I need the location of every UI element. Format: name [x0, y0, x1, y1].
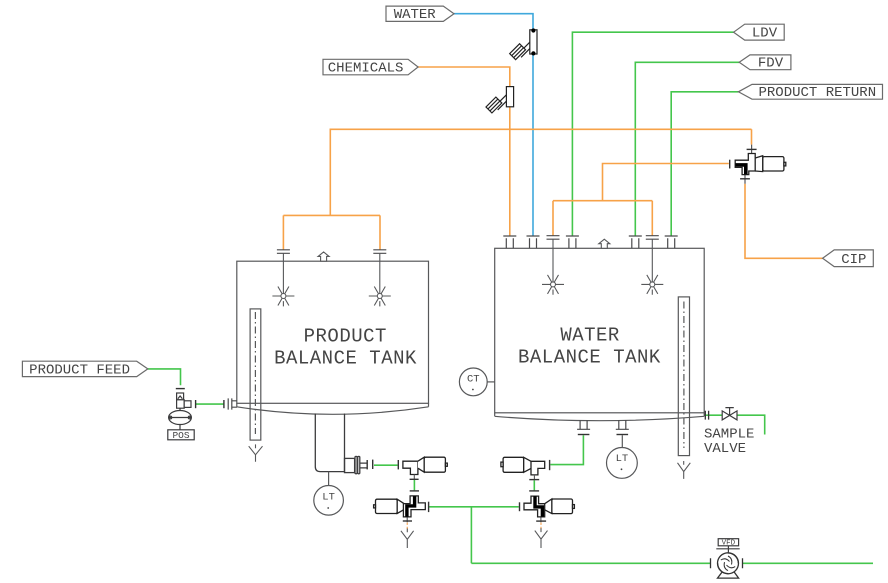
tick green pipe left: [372, 460, 374, 469]
svg-text:PRODUCT FEED: PRODUCT FEED: [29, 362, 130, 378]
standpipe product tank: [250, 309, 261, 440]
sprayball product tank left: [272, 287, 294, 307]
drain stub mixproof1 (orange): [406, 523, 408, 532]
tick V5 right: [549, 460, 551, 470]
wire CIP return drop (orange): [745, 184, 823, 258]
tick mixproof1 bottom: [403, 520, 412, 522]
valve V5 seat valve (actuator left): [501, 457, 545, 475]
nozzle spray feed right (water tank): [646, 236, 659, 240]
nozzle product feed inlet (product tank left): [228, 398, 237, 409]
nozzle bottom outlet1 (water tank): [577, 420, 590, 429]
valve chemicals inlet (Y-valve with actuator pad): [486, 87, 514, 113]
tick feed pipe right: [223, 400, 225, 408]
svg-text:FDV: FDV: [758, 56, 784, 72]
instrument LT water tank: [607, 435, 638, 478]
sprayball product tank right: [369, 287, 391, 307]
wire FDV line (green): [635, 62, 739, 236]
flag CIP: [823, 250, 874, 267]
tick mixproof1 top: [410, 490, 419, 492]
nozzle bottom outlet2 (water tank): [616, 420, 629, 429]
label water tank: [518, 325, 661, 369]
sprayball water tank right: [641, 275, 663, 295]
svg-text:LT: LT: [616, 453, 629, 465]
nozzle spray feed right (product tank): [373, 250, 386, 254]
tick feed pipe left: [195, 400, 197, 408]
svg-text:POS: POS: [172, 430, 189, 441]
sprayball water tank left: [542, 275, 564, 295]
tick V4 bottom: [410, 478, 419, 480]
valve CIP return (3-port, actuator right): [730, 145, 786, 184]
nozzle ferrule FDV inlet: [629, 236, 642, 248]
flag FDV: [739, 55, 791, 70]
svg-text:SAMPLE: SAMPLE: [704, 426, 754, 442]
wire sample line (green): [704, 415, 765, 434]
svg-text:PRODUCT RETURN: PRODUCT RETURN: [758, 85, 876, 101]
wire CIP header (orange): [283, 129, 751, 250]
wire product feed (green): [148, 369, 224, 404]
drain funnel mixproof2: [535, 528, 548, 548]
stub V4 to tick: [407, 475, 414, 523]
svg-text:PRODUCT: PRODUCT: [304, 326, 387, 348]
valve V4 seat valve (actuator right): [403, 457, 447, 474]
svg-text:LDV: LDV: [752, 26, 778, 42]
svg-text:CIP: CIP: [841, 252, 866, 268]
standpipe water tank: [678, 297, 689, 456]
valve V6 mixproof (actuator left): [374, 496, 426, 517]
tick mixproof1 right: [428, 502, 430, 512]
wire bottom main (green): [429, 507, 873, 564]
svg-text:WATER: WATER: [394, 7, 437, 23]
instrument POS box: [168, 430, 194, 441]
sprayball feed pipes: [283, 239, 652, 293]
flag PRODUCT RETURN: [738, 84, 882, 99]
wire chemicals supply (orange): [418, 67, 510, 236]
wire product return line (green): [671, 92, 738, 236]
drain funnel mixproof1: [401, 529, 414, 549]
nozzle spray feed left (product tank): [277, 250, 290, 254]
drain stub mixproof2 (orange): [540, 523, 542, 532]
nozzle sample port (water tank right): [705, 411, 708, 420]
flag LDV: [734, 24, 785, 40]
wire tank1 outlet (green): [374, 465, 414, 490]
svg-text:BALANCE TANK: BALANCE TANK: [518, 347, 661, 369]
nozzle ferrule water inlet: [527, 236, 540, 248]
tick mixproof2 bottom: [536, 520, 546, 522]
instrument LT product outlet: [314, 472, 344, 515]
tick mixproof2 top: [529, 490, 539, 492]
vent product tank: [318, 252, 329, 261]
wire tank2 outlet (green): [534, 435, 583, 490]
label product tank: [274, 326, 417, 370]
black plug mixproof1: [407, 496, 415, 516]
svg-text:LT: LT: [322, 491, 335, 503]
wire water supply (blue): [454, 14, 533, 236]
stub V5 to tick: [534, 475, 541, 522]
label sample valve: [704, 426, 754, 457]
tank water balance: [495, 248, 705, 420]
ticks water outlet nozzles: [578, 434, 590, 436]
tick V5 bottom: [529, 479, 539, 481]
tick outlet stub end: [366, 460, 368, 469]
nozzle ferrule product return inlet: [665, 236, 678, 248]
valve water inlet (Y-valve with actuator pad): [510, 28, 537, 59]
svg-text:VALVE: VALVE: [704, 441, 746, 457]
instrument CT water tank: [459, 368, 494, 396]
tick feed top: [176, 388, 185, 390]
flag CHEMICALS: [323, 59, 418, 75]
outlet pipe product tank: [315, 414, 367, 474]
nozzle spray feed left (water tank): [547, 236, 560, 240]
tank product balance: [237, 261, 429, 414]
flag WATER: [386, 6, 454, 21]
check valve feed: [177, 393, 184, 400]
pump PD lobe (product feed): [169, 408, 192, 430]
valve V7 mixproof (actuator right): [524, 496, 574, 517]
wire spray manifold (orange): [553, 164, 729, 236]
tick green pipe right: [397, 460, 399, 469]
svg-text:VFD: VFD: [722, 540, 736, 548]
drain funnel product standpipe: [249, 444, 263, 461]
tick mixproof2 left: [519, 502, 521, 511]
instrument VFD box: [716, 539, 739, 553]
flag PRODUCT FEED: [22, 361, 147, 376]
valve block feed: [177, 400, 191, 408]
pump centrifugal (VFD): [711, 553, 743, 578]
svg-text:BALANCE TANK: BALANCE TANK: [274, 347, 417, 369]
svg-text:CHEMICALS: CHEMICALS: [328, 61, 404, 77]
wire LDV line (green): [572, 32, 733, 236]
drain funnel water standpipe: [678, 461, 691, 479]
nozzle ferrule LDV inlet: [566, 236, 579, 248]
svg-text:WATER: WATER: [560, 325, 620, 347]
nozzle ferrule chemicals inlet: [503, 236, 516, 248]
vent water tank: [599, 239, 610, 248]
svg-text:CT: CT: [467, 374, 480, 386]
valve sample (manual butterfly): [722, 408, 737, 420]
black plug mixproof2: [535, 496, 542, 516]
